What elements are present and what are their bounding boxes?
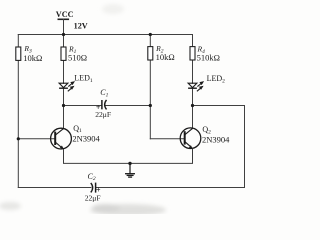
LED D2 symbol	[188, 74, 225, 91]
svg-text:2N3904: 2N3904	[72, 133, 100, 143]
wire Q1 base lead	[18, 138, 55, 140]
resistor R2	[148, 44, 175, 62]
capacitor C2	[85, 172, 101, 203]
node Q1 base junction	[17, 137, 20, 140]
svg-text:10kΩ: 10kΩ	[23, 53, 42, 63]
svg-text:VCC: VCC	[56, 10, 74, 19]
transistor Q2	[180, 125, 230, 163]
node ground junction	[128, 162, 131, 165]
svg-text:510Ω: 510Ω	[68, 53, 87, 63]
node Q1 collector / C1 junction	[62, 104, 65, 107]
node VCC junction	[62, 33, 65, 36]
svg-text:LED2: LED2	[207, 74, 226, 84]
wire C1 row	[64, 105, 102, 107]
wire Q2 collector to right rail	[193, 106, 245, 188]
svg-text:C2: C2	[88, 172, 96, 182]
wire R2 column down to Q2 base	[150, 35, 184, 139]
ground symbol	[125, 163, 135, 177]
LED D1 symbol	[59, 73, 93, 91]
resistor R3	[16, 44, 43, 63]
node R2 top junction	[149, 33, 152, 36]
wire VCC rail	[18, 34, 192, 36]
wire bottom row right of C2	[96, 187, 245, 189]
node Q2 collector junction	[191, 104, 194, 107]
svg-text:2N3904: 2N3904	[202, 135, 230, 145]
wire C1 to R2 line	[105, 105, 151, 107]
wire R1/LED1/Q1 collector column	[63, 35, 65, 129]
svg-text:22μF: 22μF	[95, 110, 111, 119]
svg-text:22μF: 22μF	[85, 193, 101, 202]
node C1 / R2 junction	[149, 104, 152, 107]
resistor R4	[190, 45, 220, 63]
svg-text:LED1: LED1	[74, 73, 93, 83]
wire left rail (R3 branch)	[17, 35, 19, 188]
svg-text:10kΩ: 10kΩ	[156, 52, 175, 62]
wire R4/LED2/Q2 collector column	[192, 35, 194, 129]
power VCC terminal	[58, 19, 68, 34]
wire emitter ground row	[64, 162, 193, 164]
svg-text:C1: C1	[100, 88, 108, 98]
resistor R1	[61, 45, 87, 63]
transistor Q1	[51, 124, 101, 164]
capacitor C1	[95, 88, 111, 119]
svg-text:12V: 12V	[74, 22, 88, 31]
wire bottom row left of C2	[18, 187, 91, 189]
svg-text:510kΩ: 510kΩ	[197, 52, 220, 62]
